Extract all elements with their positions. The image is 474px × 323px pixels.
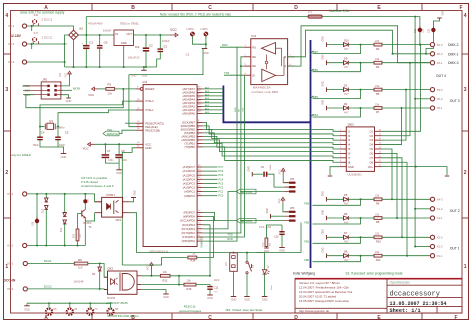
- svg-text:100n: 100n: [122, 160, 128, 162]
- connector pad X1-1 DCC: [23, 261, 27, 265]
- svg-text:GND: GND: [262, 298, 268, 302]
- wire X1-2 to OK2: [28, 288, 108, 291]
- svg-text:GND: GND: [61, 155, 67, 159]
- svg-text:BC850: BC850: [83, 221, 91, 225]
- bus rip wire FB5: [311, 96, 314, 99]
- svg-text:X5-1: X5-1: [437, 106, 443, 110]
- VCC arrow at R3: [98, 88, 106, 90]
- wire SERVO01 label: [240, 220, 285, 222]
- svg-text:CD+: CD+: [368, 165, 374, 169]
- wire TXD from PD1 to IC3 DI: [224, 74, 244, 76]
- connector pad X1-2 DCC: [23, 287, 27, 291]
- capacitor C9 100nF: [263, 172, 265, 177]
- svg-text:FB7: FB7: [313, 50, 318, 54]
- svg-text:RESET: RESET: [145, 87, 155, 91]
- svg-text:LSP2: LSP2: [187, 27, 195, 31]
- wire SJ3 top to GND: [433, 18, 439, 27]
- svg-text:D3: D3: [344, 83, 348, 87]
- solder jumper SJ2: [418, 28, 422, 32]
- svg-text:SERVO01: SERVO01: [240, 219, 252, 223]
- svg-text:DCC-IN: DCC-IN: [4, 278, 16, 282]
- svg-text:FB3: FB3: [304, 202, 309, 206]
- wire D6 to R8: [348, 217, 374, 219]
- svg-text:C6: C6: [104, 40, 108, 44]
- solder jumper SJ3: [431, 28, 435, 32]
- svg-text:MISO: MISO: [23, 84, 31, 88]
- svg-text:n.f.: n.f.: [215, 290, 219, 294]
- bus rip wire FB4: [311, 114, 314, 117]
- svg-text:15k: 15k: [187, 279, 192, 283]
- title block vertical divider: [386, 279, 388, 313]
- svg-text:13.05.2007 changed DMX connect: 13.05.2007 changed DMX connection: [299, 299, 350, 303]
- ULN output collector wires down: [382, 149, 393, 199]
- svg-text:X5-3: X5-3: [437, 88, 443, 92]
- svg-text:C11: C11: [214, 286, 219, 290]
- transistor T1 BC850: [84, 194, 86, 210]
- resistor R10 22k: [374, 236, 382, 239]
- ULN2803 pin pair row 1: [339, 130, 346, 132]
- svg-text:D4: D4: [344, 102, 348, 106]
- svg-text:SERVICE: SERVICE: [107, 132, 119, 136]
- svg-text:X3-2: X3-2: [8, 42, 15, 46]
- label SERVICE arrow: [103, 131, 119, 136]
- svg-text:X7-2: X7-2: [7, 244, 14, 248]
- wire VCC to IC2 VCC pin: [95, 143, 137, 145]
- svg-text:DI: DI: [252, 73, 255, 77]
- servo header JP4 group ground: [251, 172, 253, 177]
- resistor R3 10k pullup: [106, 88, 115, 91]
- svg-text:C2: C2: [149, 43, 153, 47]
- mounting holes ground rail: [27, 302, 111, 304]
- svg-text:PC6: PC6: [219, 170, 224, 173]
- svg-text:D9: D9: [344, 57, 348, 61]
- svg-text:RXD: RXD: [227, 237, 233, 241]
- svg-text:PC3: PC3: [219, 182, 224, 185]
- solder jumper SJ7: [32, 41, 34, 44]
- zener diode D10 4V7: [344, 43, 349, 47]
- svg-text:22k: 22k: [375, 232, 380, 236]
- svg-text:DCC1: DCC1: [44, 259, 52, 263]
- svg-text:GND: GND: [142, 73, 148, 77]
- wire 12V tap to fuse rail: [85, 17, 87, 35]
- svg-text:OK1: OK1: [116, 218, 122, 222]
- resistor R6 22k: [374, 198, 382, 201]
- wire RE DE tie: [241, 57, 244, 66]
- wire JP2 MOSI: [62, 89, 72, 91]
- VCC arrow to MCU: [88, 143, 95, 147]
- IC2 port C via wires: [203, 166, 218, 168]
- svg-text:22k: 22k: [375, 39, 380, 43]
- channel row FB7 with zener D10 and resistor R3: [326, 42, 328, 47]
- wire T1 emitter to X7-2 rail: [84, 221, 86, 246]
- switch S1: [246, 253, 248, 261]
- VCC arrow JP3: [281, 197, 285, 203]
- wire PE1 ground net: [129, 49, 203, 75]
- microcontroller IC2 MEGA8515: [143, 85, 197, 247]
- svg-text:DMX-3: DMX-3: [448, 61, 459, 65]
- title block top accent line: [295, 278, 462, 280]
- svg-text:VCC: VCC: [88, 93, 94, 97]
- svg-text:O3: O3: [370, 138, 374, 142]
- wire bridge left corner to ground rail: [65, 35, 69, 67]
- svg-text:100uF/10: 100uF/10: [128, 56, 140, 60]
- wire R15 to C11: [196, 285, 210, 286]
- svg-text:1: 1: [464, 264, 467, 270]
- svg-text:12V: 12V: [422, 28, 425, 33]
- resistor R12: [160, 274, 170, 277]
- svg-text:D15: D15: [43, 208, 45, 213]
- svg-text:12.04.2007 optional RC at Rece: 12.04.2007 optional RC at Receiver Out: [299, 290, 352, 294]
- wire X5-2 stub: [415, 98, 430, 100]
- svg-text:2 DCC2: 2 DCC2: [42, 36, 53, 40]
- ground symbol under JP2: [62, 95, 69, 98]
- wire SJ3 to X6-2: [426, 33, 433, 54]
- bus rip wire FB0: [313, 256, 361, 262]
- svg-text:O8: O8: [370, 160, 374, 164]
- ground symbol power rail: [143, 67, 145, 70]
- capacitor C4 18pF: [39, 127, 41, 137]
- svg-text:GND: GND: [121, 41, 127, 45]
- svg-text:6N136: 6N136: [107, 296, 116, 300]
- ground symbol C11: [207, 294, 213, 296]
- svg-text:D1: D1: [92, 272, 96, 276]
- svg-text:1N4148: 1N4148: [74, 279, 84, 283]
- capacitor C7 100n: [104, 144, 106, 154]
- svg-text:2 DCC1: 2 DCC1: [42, 18, 53, 22]
- svg-text:PC7: PC7: [219, 166, 224, 169]
- svg-text:GND: GND: [267, 208, 269, 213]
- wire fuse to DMX supply jumpers: [322, 17, 420, 29]
- svg-text:C4: C4: [41, 130, 45, 134]
- svg-text:GND: GND: [323, 54, 325, 59]
- capacitor C6 100nF: [99, 35, 101, 45]
- LED D2: [256, 252, 258, 254]
- IC2 port B wires to ULN inputs: [203, 122, 226, 129]
- svg-text:4V7: 4V7: [344, 92, 349, 96]
- bus rip wire FB7: [311, 51, 314, 54]
- wire OK1 out bottom: [130, 213, 137, 253]
- svg-text:D7: D7: [344, 231, 348, 235]
- connector pad X3-2: [22, 42, 26, 46]
- wire XTAL2 to crystal: [40, 101, 136, 126]
- wires PE0 PE2: [125, 122, 136, 124]
- bus rip wire FB3: [313, 199, 361, 205]
- wire R4 to output pad: [382, 62, 430, 64]
- svg-text:O7: O7: [370, 156, 374, 160]
- svg-text:JP2: JP2: [42, 78, 47, 82]
- IC2 right pins port A: [197, 88, 203, 90]
- svg-text:2803: 2803: [348, 122, 355, 126]
- svg-text:XTAL2: XTAL2: [145, 99, 154, 103]
- bridge rectifier B1: [69, 30, 79, 40]
- svg-text:A: A: [44, 315, 48, 321]
- zener diode D8 4V7: [344, 254, 349, 258]
- svg-text:GND: GND: [244, 298, 250, 302]
- zener diode D9 4V7: [344, 61, 349, 65]
- svg-text:B: B: [131, 5, 135, 11]
- svg-text:OUT 1: OUT 1: [450, 246, 460, 250]
- svg-text:X6-2: X6-2: [437, 52, 443, 56]
- svg-text:VCC: VCC: [279, 169, 281, 174]
- svg-text:22k: 22k: [375, 250, 380, 254]
- svg-text:R6: R6: [376, 202, 380, 206]
- svg-text:X6-1: X6-1: [437, 61, 443, 65]
- ULN2803 pin pair row 6: [339, 152, 346, 154]
- svg-text:10nF: 10nF: [214, 278, 220, 282]
- wire lowpass branch: [178, 276, 180, 285]
- svg-text:X2-2: X2-2: [437, 245, 443, 249]
- wire R11 to output pad: [382, 255, 430, 257]
- IC2 right pins port C: [197, 166, 203, 168]
- svg-text:R15: R15: [187, 287, 192, 291]
- wire OK2 gnd pin: [141, 290, 166, 295]
- svg-text:12.04.2007: Freilaufresistor 1: 12.04.2007: Freilaufresistor 10k->22k: [299, 286, 349, 290]
- svg-text:GND: GND: [116, 171, 122, 175]
- svg-text:FB5: FB5: [313, 95, 318, 99]
- ULN output collector wires up: [382, 45, 421, 132]
- RS485 transceiver IC3 MAX485CSA: [251, 39, 288, 85]
- svg-text:A: A: [284, 64, 286, 68]
- connector pad X3-3: [22, 60, 26, 64]
- ground symbol LSP: [202, 48, 208, 50]
- diode D1 1N4148: [99, 264, 101, 268]
- capacitor C1 470uF/40V: [85, 35, 87, 45]
- svg-text:2: 2: [464, 170, 467, 176]
- svg-text:GND: GND: [66, 100, 72, 103]
- servo header JP3 ground: [270, 214, 272, 219]
- frame column ticks top: [91, 4, 93, 11]
- svg-text:GND: GND: [207, 296, 213, 300]
- svg-text:JP1: if fitted: save last Stat: JP1: if fitted: save last State: [225, 308, 262, 312]
- channel row FB2 with zener D6 and resistor R8: [326, 216, 328, 221]
- wire X3-3 to bottom rail: [27, 61, 65, 63]
- junction stub common supply: [31, 26, 33, 31]
- connector pad X3-1: [22, 24, 26, 28]
- svg-text:OUT 2: OUT 2: [450, 209, 460, 213]
- wire R10 to output pad: [382, 236, 430, 238]
- svg-text:X5-2: X5-2: [437, 97, 443, 101]
- ULN2803 pin pair row 5: [339, 148, 346, 150]
- zener diode D4 4V7: [344, 106, 349, 110]
- svg-text:X3-3: X3-3: [8, 60, 15, 64]
- zener diode D5 4V7: [344, 197, 349, 201]
- frame row ticks right: [462, 53, 469, 55]
- svg-text:FB0: FB0: [304, 258, 309, 262]
- crystal Q1 12MHz: [40, 126, 45, 128]
- svg-text:GND: GND: [145, 146, 151, 150]
- svg-text:S1: if pressed: enter programm: S1: if pressed: enter programming mode: [346, 272, 403, 276]
- wire C9 to JP4: [267, 174, 289, 187]
- wire OK1 input low: [85, 213, 94, 221]
- svg-text:22k: 22k: [375, 212, 380, 216]
- svg-text:VCC: VCC: [170, 28, 177, 32]
- svg-text:PC4: PC4: [219, 178, 224, 181]
- svg-text:FB4: FB4: [313, 113, 318, 117]
- bus DMX outputs vertical: [310, 40, 312, 268]
- wire D10 to R3: [348, 44, 374, 46]
- svg-text:IC3: IC3: [251, 34, 256, 38]
- svg-text:XTAL1: XTAL1: [145, 108, 154, 112]
- wire D4 to R7: [348, 107, 374, 109]
- svg-text:2: 2: [5, 170, 8, 176]
- svg-text:http://www.opendcc.de: http://www.opendcc.de: [299, 309, 330, 313]
- wire 12V rail to fuse F1: [86, 16, 308, 18]
- svg-text:GND: GND: [323, 100, 325, 105]
- wire R5 to output pad: [382, 89, 430, 91]
- ground rail power: [65, 66, 157, 68]
- connector pad X7-2: [23, 243, 27, 247]
- svg-text:TXD: TXD: [227, 233, 232, 237]
- svg-text:18pF: 18pF: [33, 143, 40, 147]
- resistor R14: [188, 256, 197, 259]
- svg-text:optional lowpass: optional lowpass: [179, 309, 202, 313]
- svg-text:JP1: JP1: [225, 261, 228, 266]
- svg-text:not fitted / only DMX: not fitted / only DMX: [251, 90, 278, 94]
- svg-text:OUT: OUT: [126, 32, 132, 36]
- bus rip wire FB6: [311, 69, 314, 72]
- svg-text:VCC: VCC: [147, 265, 150, 270]
- optocoupler OK1 PC817: [102, 197, 123, 217]
- ULN2803 pin pair row 8: [339, 161, 346, 163]
- svg-text:VCC: VCC: [279, 198, 281, 203]
- svg-text:B1: B1: [80, 27, 84, 31]
- svg-text:22k: 22k: [375, 57, 380, 61]
- resistor R13: [78, 214, 82, 230]
- ground bar DMX jumper: [437, 17, 442, 19]
- svg-text:4V7: 4V7: [344, 65, 349, 69]
- title block row dividers: [387, 284, 462, 286]
- IC2 left pins: [136, 88, 140, 90]
- svg-text:7805 or 7805L: 7805 or 7805L: [120, 22, 140, 26]
- IC2 right pins port D: [197, 211, 203, 213]
- svg-text:R9: R9: [78, 258, 82, 262]
- ULN GND pin wire: [330, 167, 339, 175]
- VCC arrow right: [170, 33, 178, 37]
- svg-text:D10: D10: [344, 38, 349, 42]
- svg-text:OK2: OK2: [108, 267, 114, 271]
- svg-text:F: F: [454, 315, 457, 321]
- svg-text:X5-1: X5-1: [7, 262, 14, 266]
- IC3 internal wires: [276, 47, 282, 49]
- svg-text:4: 4: [5, 13, 8, 19]
- svg-text:MOSI: MOSI: [73, 87, 80, 91]
- solder jumper SJ6: [32, 23, 34, 26]
- svg-text:R14: R14: [191, 258, 196, 262]
- svg-text:PC817: PC817: [107, 193, 116, 197]
- svg-text:Multifuse 0,5A: Multifuse 0,5A: [329, 9, 350, 13]
- VCC arrow JP2: [62, 78, 70, 86]
- svg-text:(T0)PB0: (T0)PB0: [184, 145, 195, 149]
- mounting holes H5 H6 H7 H8: [46, 309, 52, 315]
- ULN2803 pin pair row 4: [339, 144, 346, 146]
- resistor R9 1k5: [74, 262, 88, 265]
- output pads X2 OUT1: [430, 235, 434, 239]
- svg-text:only for 10MHz: only for 10MHz: [11, 153, 32, 157]
- wire D9 to R4: [348, 62, 374, 64]
- svg-text:X4-3: X4-3: [437, 198, 443, 202]
- svg-text:3mm: 3mm: [271, 285, 273, 290]
- svg-text:12V: 12V: [59, 72, 62, 77]
- svg-text:GND: GND: [443, 10, 445, 15]
- svg-text:100n: 100n: [108, 160, 114, 162]
- wire XTAL1 to crystal: [58, 110, 136, 127]
- ground symbol R16: [264, 247, 269, 249]
- wire regulator output VCC rail: [134, 34, 171, 36]
- channel row FB5 with zener D3 and resistor R5: [326, 87, 328, 92]
- title block frame: [295, 279, 462, 313]
- svg-text:S1: S1: [251, 264, 255, 268]
- common supply vertical rail: [414, 17, 416, 247]
- IC2 port A wires to bus: [203, 88, 224, 90]
- wire PD7 stub: [203, 212, 215, 220]
- svg-text:X2-3: X2-3: [437, 236, 443, 240]
- solder jumper SJ5: [36, 194, 38, 219]
- svg-text:X4-2: X4-2: [437, 207, 443, 211]
- zener diode D6 4V7: [344, 216, 349, 220]
- resistor R15 lowpass: [184, 283, 196, 286]
- svg-text:Version 2.0, Layout 50 * 80mm: Version 2.0, Layout 50 * 80mm: [299, 281, 341, 285]
- ULN input wires from MCU port B: [226, 130, 339, 132]
- svg-text:R7: R7: [376, 110, 380, 114]
- svg-text:(RXD)PD0: (RXD)PD0: [182, 239, 196, 243]
- svg-text:R3: R3: [376, 47, 380, 51]
- wire OK2 output row: [141, 284, 184, 286]
- svg-text:D13: D13: [61, 227, 63, 232]
- svg-text:scratch between 4 and 5: scratch between 4 and 5: [81, 184, 114, 188]
- svg-text:+: +: [66, 42, 68, 46]
- test point LSP1: [204, 32, 209, 37]
- svg-text:DE: DE: [252, 64, 256, 68]
- diodes D15 D16: [45, 194, 47, 198]
- svg-text:PE2(OC1B): PE2(OC1B): [145, 128, 160, 132]
- svg-text:IC2: IC2: [143, 80, 148, 84]
- svg-text:FB1: FB1: [304, 240, 309, 244]
- svg-text:C3: C3: [186, 53, 190, 57]
- svg-text:RO: RO: [252, 45, 256, 49]
- wire OK2 vcc out with VCC arrow: [141, 275, 160, 277]
- wire IC3 B to DMX: [288, 30, 431, 57]
- wire option rail to JP3: [300, 223, 302, 253]
- svg-text:D6: D6: [344, 212, 348, 216]
- zener diode D7 4V7: [344, 235, 349, 239]
- svg-text:ULN2803D: ULN2803D: [348, 173, 362, 177]
- ULN2803 pin pair row 3: [339, 139, 346, 141]
- wire bridge to regulator rail: [78, 34, 114, 36]
- wire D3 to R5: [348, 89, 374, 91]
- svg-text:D8: D8: [344, 250, 348, 254]
- svg-text:O2: O2: [370, 134, 374, 138]
- wire SERVO02 to MCU PD3: [203, 192, 237, 229]
- channel row FB6 with zener D9 and resistor R4: [326, 60, 328, 64]
- svg-text:FB2: FB2: [304, 220, 309, 224]
- output pads X4 OUT2: [430, 197, 434, 201]
- svg-text:100nF: 100nF: [103, 29, 112, 33]
- svg-text:X6-3: X6-3: [437, 43, 443, 47]
- output pads X6 DMX connector: [430, 43, 434, 47]
- resistor R3 22k: [374, 43, 382, 46]
- wire R6 to output pad: [382, 198, 430, 200]
- svg-text:12-18V: 12-18V: [10, 34, 22, 38]
- svg-text:GND: GND: [323, 247, 325, 252]
- wire R8 to output pad: [382, 217, 430, 219]
- svg-text:IN: IN: [116, 32, 119, 36]
- channel row FB3 with zener D5 and resistor R6: [326, 197, 328, 202]
- ULN2803 pin pair row 2: [339, 135, 346, 137]
- svg-text:C5: C5: [65, 130, 69, 134]
- ground symbol C7 C8: [118, 163, 120, 170]
- ULN common wire CD+: [382, 167, 448, 175]
- svg-text:4V7: 4V7: [344, 47, 349, 51]
